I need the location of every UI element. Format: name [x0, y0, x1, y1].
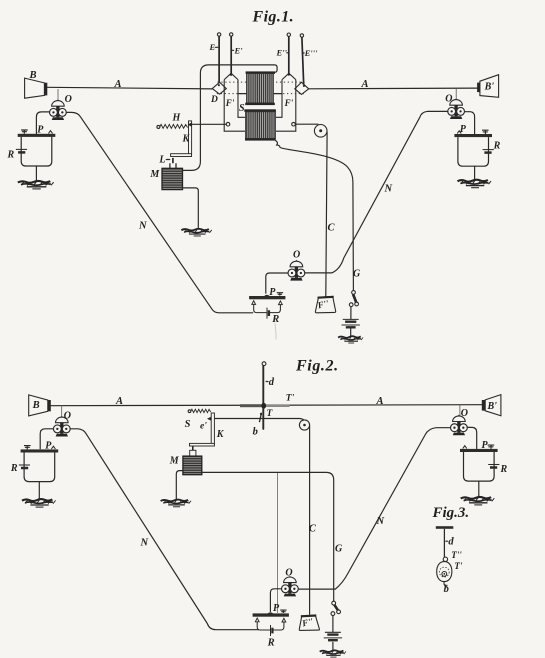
transmitter bar P fig2	[253, 610, 289, 636]
svg-text:E''': E'''	[304, 48, 318, 58]
label A left	[114, 79, 122, 90]
svg-text:L: L	[158, 155, 165, 166]
weight F'' fig2	[299, 615, 319, 630]
wire M to ground fig2	[176, 471, 183, 500]
wire tap line A to O right fig2	[459, 405, 461, 416]
dotted axis lower	[217, 93, 306, 95]
label C fig2	[309, 524, 317, 535]
tail hook b fig3	[444, 582, 447, 587]
svg-text:A: A	[114, 79, 122, 90]
svg-text:T': T'	[454, 561, 462, 571]
electromagnet M fig1	[162, 163, 183, 189]
label P right	[460, 124, 467, 135]
label C	[328, 223, 336, 234]
label O bottom fig2	[285, 567, 292, 578]
svg-text:F'': F''	[300, 616, 315, 629]
svg-text:O: O	[445, 94, 452, 105]
svg-text:M: M	[169, 455, 180, 466]
label B	[29, 70, 37, 81]
spring H	[157, 124, 188, 128]
label e' fig2	[200, 421, 207, 431]
wire switch to battery fig2	[332, 616, 334, 632]
contact diamond D	[212, 82, 226, 94]
svg-text:G: G	[353, 269, 361, 280]
svg-text:O: O	[64, 411, 71, 422]
svg-text:O: O	[293, 250, 300, 261]
wire tap line A to O left fig2	[61, 405, 63, 419]
secondary coil (lower)	[244, 109, 276, 140]
node at left peak	[230, 74, 232, 76]
ground M fig1	[181, 229, 211, 236]
label N right fig2	[376, 516, 385, 527]
induction coil O (right station)	[448, 98, 465, 119]
label A right	[361, 79, 369, 90]
wire E'' lead	[288, 37, 290, 74]
title Fig.1	[252, 9, 295, 26]
label F' right	[284, 98, 294, 108]
armature K fig2	[190, 413, 215, 446]
label B' right	[484, 82, 495, 93]
ground M fig2	[161, 500, 191, 507]
svg-text:N: N	[138, 221, 147, 232]
label E	[209, 42, 218, 52]
battery jar P left fig2	[19, 446, 58, 482]
pivot ring T'' fig3	[443, 557, 447, 561]
label b fig3	[444, 584, 449, 595]
label R right	[493, 141, 501, 152]
svg-text:K: K	[182, 134, 191, 145]
svg-text:Fig.3.: Fig.3.	[432, 505, 470, 521]
label H	[172, 113, 182, 124]
label T fig2	[267, 409, 274, 419]
label M fig1	[149, 169, 160, 180]
weight F'' fig1	[315, 297, 335, 313]
ground left fig2	[22, 499, 56, 507]
label d fig3	[446, 537, 455, 548]
svg-text:B': B'	[484, 82, 495, 93]
label S fig2	[185, 419, 191, 430]
node circle right of box	[292, 122, 296, 126]
label R left	[7, 150, 15, 161]
label S coil gap	[239, 103, 245, 114]
rod d fig2	[262, 362, 266, 429]
svg-text:D: D	[210, 95, 218, 105]
label P left	[37, 124, 44, 135]
wire jar to ground right fig2	[478, 481, 480, 497]
svg-text:P: P	[460, 124, 467, 135]
svg-text:R: R	[493, 141, 501, 152]
wire battery to ground fig1	[350, 328, 352, 336]
svg-text:B: B	[29, 70, 37, 81]
induction coil O right fig2	[451, 415, 468, 436]
svg-text:N: N	[140, 538, 149, 549]
battery jar P left	[16, 130, 55, 166]
transmitter bar P fig1	[249, 293, 285, 319]
svg-text:P: P	[269, 287, 276, 298]
svg-text:Fig.1.: Fig.1.	[252, 9, 295, 26]
label K fig1	[182, 134, 191, 145]
armature K fig1	[171, 121, 192, 157]
spring S fig2	[188, 409, 211, 412]
label E'''	[303, 48, 318, 58]
wire secondary coil to switch G	[275, 140, 353, 290]
wire N left diagonal	[66, 112, 253, 312]
svg-text:P: P	[45, 441, 52, 452]
svg-text:F': F'	[284, 98, 294, 108]
wire from primary coil top around to electromagnet M	[183, 65, 278, 170]
wire O to jar P left fig2	[40, 429, 53, 449]
label d fig2	[266, 377, 275, 388]
label K fig2	[216, 429, 225, 440]
dashed circle fig3	[439, 567, 449, 577]
contact diamond right	[295, 82, 309, 94]
wire battery to ground fig2	[332, 642, 334, 650]
artifact faint stroke	[275, 323, 276, 340]
svg-text:F': F'	[225, 98, 235, 108]
wire box to armature K	[192, 123, 226, 125]
label F'' fig2	[300, 616, 315, 629]
label P right fig2	[482, 440, 489, 451]
label N right	[384, 184, 393, 195]
wire O to jar P right	[465, 112, 475, 134]
svg-text:e': e'	[200, 421, 207, 431]
svg-text:B: B	[32, 400, 40, 411]
svg-text:R: R	[267, 637, 275, 648]
wire line A left section	[47, 87, 212, 89]
wire E''' lead	[302, 37, 304, 85]
label M fig2	[169, 455, 180, 466]
induction coil O bottom fig1	[288, 260, 305, 281]
svg-text:M: M	[149, 169, 160, 180]
wire O to P bar fig2	[270, 589, 281, 612]
wire branch to transmitter bar fig2	[277, 473, 279, 613]
svg-text:d: d	[448, 537, 454, 548]
contact pin fig2	[190, 446, 196, 456]
svg-text:O: O	[461, 408, 468, 419]
svg-text:H: H	[172, 113, 182, 124]
svg-text:Fig.2.: Fig.2.	[295, 358, 339, 375]
wire switch to battery fig1	[350, 307, 352, 320]
svg-text:E'': E''	[276, 48, 288, 58]
induction coil O (left station)	[50, 99, 67, 120]
node at right peak	[288, 74, 290, 76]
svg-text:R: R	[7, 150, 15, 161]
contact pin L	[172, 158, 174, 163]
label R left fig2	[10, 463, 18, 474]
svg-text:T: T	[267, 409, 274, 419]
wire line A fig2	[51, 405, 482, 406]
svg-text:C: C	[309, 524, 317, 535]
svg-text:S: S	[185, 419, 191, 430]
induction coil O left fig2	[53, 416, 70, 437]
label B' fig2	[487, 401, 498, 412]
svg-text:A: A	[376, 396, 384, 407]
label O bottom fig1	[293, 250, 300, 261]
label N left	[138, 221, 147, 232]
wire C fig2	[309, 426, 311, 615]
label T'' fig3	[451, 550, 462, 560]
terminal E post	[217, 33, 220, 36]
label P bottom fig2	[273, 603, 280, 614]
ground right fig2	[461, 497, 495, 505]
svg-text:P: P	[273, 603, 280, 614]
label L	[158, 155, 169, 166]
support bar fig3	[436, 526, 454, 529]
svg-text:b: b	[253, 427, 258, 438]
wire armature to pulley fig2	[212, 419, 303, 421]
wire jar to ground left fig2	[38, 482, 40, 499]
svg-text:R: R	[10, 463, 18, 474]
terminal E' post	[230, 33, 233, 36]
pulley fig1	[314, 125, 327, 138]
wire N right diagonal to bottom coil O	[305, 111, 448, 273]
wire E lead	[218, 36, 220, 83]
label A fig2 left	[115, 396, 123, 407]
battery jar P right fig2	[460, 445, 499, 481]
label F' left	[225, 98, 235, 108]
svg-text:A: A	[361, 79, 369, 90]
pulley fig2	[299, 420, 309, 430]
label O left fig2	[64, 411, 71, 422]
horn B (left telephone)	[25, 78, 48, 98]
horn B fig2	[29, 395, 51, 416]
wire jar to ground left	[35, 166, 37, 181]
svg-text:S: S	[239, 103, 245, 114]
title Fig.3	[432, 505, 470, 521]
label G fig2	[335, 544, 343, 555]
label F'' fig1	[316, 298, 331, 311]
label O left	[65, 94, 72, 105]
label G	[353, 269, 361, 280]
svg-text:C: C	[328, 223, 336, 234]
wire O to jar P left	[36, 112, 49, 134]
label B fig2	[32, 400, 40, 411]
label b fig2	[253, 427, 258, 438]
label R right fig2	[500, 464, 508, 475]
frame F' right peak	[282, 73, 296, 79]
svg-text:O: O	[285, 567, 292, 578]
svg-text:K: K	[216, 429, 225, 440]
horn B' fig2	[482, 395, 501, 416]
label R bottom fig2	[267, 637, 275, 648]
wire E' lead	[230, 36, 232, 74]
svg-text:P: P	[482, 440, 489, 451]
label T' fig3	[454, 561, 462, 571]
switch lever fig1	[349, 291, 358, 307]
terminal E'' post	[287, 33, 290, 36]
svg-text:B': B'	[487, 401, 498, 412]
ground battery fig2	[320, 650, 346, 657]
battery fig1	[342, 319, 360, 327]
wire line A right section	[309, 87, 477, 90]
wire tap line A to coil O right	[455, 89, 457, 100]
induction coil O bottom fig2	[282, 576, 299, 597]
svg-text:G: G	[335, 544, 343, 555]
label O right	[445, 94, 452, 105]
label D	[210, 95, 218, 105]
label A fig2 right	[376, 396, 384, 407]
wire box to pulley	[295, 123, 318, 125]
label R bottom fig1	[271, 314, 279, 325]
rod d fig3	[443, 529, 445, 557]
wire M to switch G fig2	[202, 472, 334, 601]
svg-text:E': E'	[234, 46, 244, 56]
horn B' (right telephone)	[477, 75, 499, 98]
svg-text:F'': F''	[316, 298, 331, 311]
switch lever fig2	[331, 601, 341, 615]
frame outer box	[224, 80, 296, 132]
ground right station	[457, 180, 491, 188]
lever bar T'	[240, 404, 290, 407]
battery jar P right	[454, 130, 493, 166]
svg-text:O: O	[65, 94, 72, 105]
contact b fig2	[259, 413, 262, 423]
svg-text:b: b	[444, 584, 449, 595]
label P left fig2	[45, 441, 52, 452]
wire O to P bar fig1	[266, 273, 288, 293]
svg-text:T': T'	[286, 393, 295, 403]
label N left fig2	[140, 538, 149, 549]
svg-text:R: R	[500, 464, 508, 475]
label T' fig2	[286, 393, 295, 403]
label E'	[232, 46, 243, 56]
wire stubs to coil	[238, 93, 282, 95]
ground battery fig1	[338, 336, 363, 343]
svg-text:E: E	[209, 42, 216, 52]
pivot node on line A	[261, 403, 266, 409]
frame F' left peak	[224, 73, 238, 79]
armature body fig3	[437, 562, 452, 582]
ground left station	[18, 181, 54, 189]
title Fig.2	[295, 358, 339, 375]
wire jar to ground right	[474, 166, 476, 179]
inner pivot fig3	[442, 572, 447, 577]
dotted axis upper	[218, 81, 306, 83]
svg-text:N: N	[376, 516, 385, 527]
svg-text:d: d	[269, 377, 275, 388]
wire O to jar P right fig2	[467, 427, 476, 448]
svg-text:A: A	[115, 396, 123, 407]
frame inner box	[238, 80, 282, 118]
wire M to ground fig1	[183, 188, 199, 229]
label O right fig2	[461, 408, 468, 419]
electromagnet M fig2	[183, 456, 202, 475]
terminal E''' post	[300, 34, 303, 37]
primary coil (upper)	[245, 71, 275, 105]
svg-text:T'': T''	[451, 550, 462, 560]
wire N right diagonal fig2	[298, 428, 450, 589]
label P bottom fig1	[269, 287, 276, 298]
wire N left diagonal fig2	[70, 429, 258, 630]
node circle left of box	[226, 122, 230, 126]
svg-text:P: P	[37, 124, 44, 135]
label E''	[276, 48, 289, 58]
wire tap from line A to coil O left	[57, 89, 59, 101]
battery fig2	[324, 632, 342, 640]
wire C cord	[326, 132, 327, 296]
svg-text:N: N	[384, 184, 393, 195]
